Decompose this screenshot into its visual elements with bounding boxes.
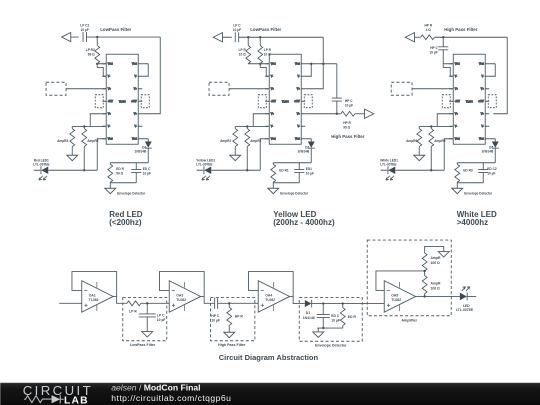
svg-text:4 Ω: 4 Ω	[426, 28, 432, 32]
svg-text:LTL-307EE: LTL-307EE	[196, 163, 212, 167]
svg-text:LTL-307EE: LTL-307EE	[380, 163, 396, 167]
svg-text:AmpR5: AmpR5	[434, 139, 445, 143]
svg-text:OA3: OA3	[176, 294, 183, 298]
svg-text:High Pass Filter: High Pass Filter	[331, 134, 364, 139]
svg-text:High Pass Filter: High Pass Filter	[218, 343, 246, 347]
svg-text:HP C: HP C	[430, 46, 438, 50]
svg-text:ED C: ED C	[143, 167, 151, 171]
svg-text:10 µF: 10 µF	[487, 171, 495, 175]
svg-text:AmpR6: AmpR6	[406, 139, 417, 143]
svg-text:1N914B: 1N914B	[135, 150, 147, 154]
svg-text:LowPass Filter: LowPass Filter	[100, 27, 131, 32]
svg-text:10 µF: 10 µF	[211, 318, 220, 322]
svg-text:ED C2: ED C2	[487, 167, 497, 171]
svg-text:http://circuitlab.com/ctqgp6u: http://circuitlab.com/ctqgp6u	[111, 393, 231, 403]
svg-text:10 µF: 10 µF	[430, 50, 438, 54]
svg-text:LP C2: LP C2	[80, 23, 89, 27]
svg-text:AmpR: AmpR	[430, 256, 441, 260]
svg-text:LAB: LAB	[64, 395, 89, 405]
svg-text:TL082: TL082	[391, 298, 401, 302]
svg-text:TL082: TL082	[176, 298, 186, 302]
svg-text:HP R: HP R	[343, 121, 351, 125]
svg-text:1N4148: 1N4148	[303, 316, 315, 320]
svg-text:LTL-307EE: LTL-307EE	[456, 308, 474, 312]
svg-text:AmpR1: AmpR1	[250, 139, 261, 143]
svg-text:LP C: LP C	[157, 314, 165, 318]
svg-text:Amplifier: Amplifier	[401, 319, 417, 323]
svg-text:10 µF: 10 µF	[233, 28, 241, 32]
svg-text:D1: D1	[306, 311, 310, 315]
svg-text:ED R: ED R	[116, 167, 124, 171]
svg-text:LTL-307EE: LTL-307EE	[33, 163, 49, 167]
svg-text:99 Ω: 99 Ω	[88, 52, 95, 56]
svg-text:Envelope Detector: Envelope Detector	[280, 191, 309, 195]
svg-text:HP C: HP C	[211, 314, 220, 318]
svg-text:ED R1: ED R1	[279, 168, 289, 172]
svg-text:ED R3: ED R3	[463, 168, 473, 172]
svg-text:100 Ω: 100 Ω	[430, 261, 440, 265]
svg-text:ED1: ED1	[306, 167, 312, 171]
svg-text:OA1: OA1	[89, 294, 96, 298]
svg-text:LP R: LP R	[264, 48, 272, 52]
svg-text:99 Ω: 99 Ω	[343, 125, 350, 129]
svg-text:LowPass Filter: LowPass Filter	[130, 343, 156, 347]
svg-text:10 µF: 10 µF	[143, 171, 151, 175]
svg-text:10 µF: 10 µF	[81, 28, 89, 32]
svg-text:LP R: LP R	[129, 310, 137, 314]
svg-text:99 Ω: 99 Ω	[116, 171, 123, 175]
svg-text:HP C: HP C	[345, 99, 353, 103]
svg-text:aelsen / ModCon Final: aelsen / ModCon Final	[111, 383, 200, 393]
svg-text:LP R: LP R	[239, 48, 247, 52]
svg-text:Circuit Diagram Abstraction: Circuit Diagram Abstraction	[219, 353, 319, 362]
svg-text:OA4: OA4	[265, 294, 272, 298]
svg-text:AmpR: AmpR	[430, 281, 441, 285]
svg-text:LP C: LP C	[233, 23, 241, 27]
svg-text:OA5: OA5	[391, 294, 398, 298]
svg-text:Envelope Detector: Envelope Detector	[117, 191, 146, 195]
svg-text:High Pass Filter: High Pass Filter	[444, 27, 477, 32]
svg-text:Envelope Detector: Envelope Detector	[464, 191, 493, 195]
svg-text:HP R: HP R	[235, 314, 244, 318]
svg-text:TL082: TL082	[89, 298, 99, 302]
svg-text:10 µF: 10 µF	[157, 318, 166, 322]
svg-text:AmpR3: AmpR3	[87, 139, 98, 143]
svg-text:>4000hz: >4000hz	[457, 218, 488, 227]
svg-text:10 µF: 10 µF	[345, 103, 353, 107]
svg-text:(200hz - 4000hz): (200hz - 4000hz)	[273, 218, 335, 227]
svg-text:(<200hz): (<200hz)	[109, 218, 142, 227]
svg-text:10 µF: 10 µF	[306, 171, 314, 175]
svg-text:AmpR2: AmpR2	[220, 139, 231, 143]
svg-text:LP R2: LP R2	[86, 48, 95, 52]
svg-text:100 Ω: 100 Ω	[430, 286, 440, 290]
svg-text:10 µF: 10 µF	[331, 319, 340, 323]
svg-text:TL082: TL082	[265, 298, 275, 302]
svg-text:10 Ω: 10 Ω	[264, 52, 271, 56]
svg-text:1N914B: 1N914B	[298, 150, 310, 154]
svg-text:Envelope Detector: Envelope Detector	[315, 344, 347, 348]
svg-text:LowPass Filter: LowPass Filter	[250, 27, 281, 32]
svg-text:HP R: HP R	[424, 23, 432, 27]
svg-text:ED C: ED C	[331, 314, 340, 318]
svg-text:AmpR4: AmpR4	[57, 139, 68, 143]
svg-text:ED R: ED R	[348, 315, 357, 319]
svg-text:10 Ω: 10 Ω	[239, 52, 246, 56]
svg-text:1N914B: 1N914B	[482, 150, 494, 154]
